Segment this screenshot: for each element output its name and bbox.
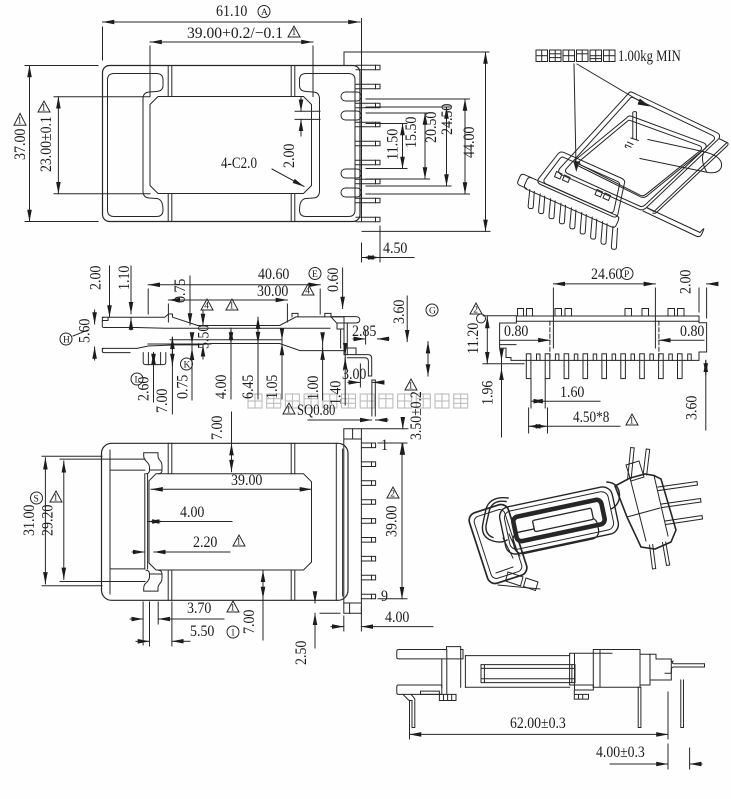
svg-text:2: 2 — [390, 489, 395, 499]
svg-text:1: 1 — [53, 493, 58, 503]
winding tube verticals — [144, 474, 146, 569]
iso2 header inner lines — [627, 476, 668, 542]
iso1 bottom mounting plate — [640, 140, 722, 173]
svg-text:1: 1 — [381, 437, 388, 454]
bottom view inner left line — [500, 344, 516, 346]
svg-text:24.60: 24.60 — [591, 266, 622, 283]
dim 4.00 tube — [148, 504, 232, 522]
svg-text:9: 9 — [381, 588, 388, 605]
circled H left — [60, 330, 88, 345]
dim 20.50 — [366, 107, 451, 186]
tube walls seen through top/bottom — [167, 443, 169, 474]
wire hook pill 4 — [341, 188, 362, 197]
side view right bracket step — [344, 348, 356, 355]
elevation left wire pin — [403, 694, 415, 727]
iso1 latch bumps — [555, 172, 571, 183]
dim 2.60 — [136, 353, 154, 402]
left flange plate lines — [110, 469, 145, 471]
svg-text:2.00: 2.00 — [88, 266, 105, 290]
svg-text:3.60: 3.60 — [684, 396, 701, 420]
iso2 winding tube tab below ring — [511, 516, 600, 555]
svg-text:1.10: 1.10 — [116, 266, 133, 290]
iso1 centre post — [631, 112, 639, 141]
top view right flange C-profile — [300, 74, 356, 217]
svg-text:1: 1 — [292, 28, 297, 38]
dim 44.00 — [362, 52, 490, 231]
svg-text:4.50*8: 4.50*8 — [573, 409, 609, 426]
dim 30.00 — [168, 283, 314, 322]
iso2 pin up 2 — [643, 449, 650, 475]
side view right L pin horizontal — [347, 355, 371, 376]
dim 61.10 A — [103, 3, 361, 60]
dim 39.00 +0.2/-0.1 B — [150, 25, 313, 97]
svg-text:G: G — [429, 306, 436, 316]
svg-text:4: 4 — [204, 301, 209, 311]
svg-text:4-C2.0: 4-C2.0 — [221, 155, 257, 172]
svg-text:15.50: 15.50 — [403, 117, 420, 148]
dim 6.45 side — [240, 317, 258, 399]
svg-text:1: 1 — [408, 381, 413, 391]
dim 62.00±0.3 — [410, 692, 669, 739]
side view foot — [143, 353, 166, 365]
svg-text:0.75: 0.75 — [172, 279, 189, 303]
dim 40.60 E — [148, 266, 321, 314]
dim 1.40 side — [328, 345, 346, 405]
svg-text:24.50: 24.50 — [439, 104, 456, 135]
iso2 pin up 1 — [628, 448, 635, 479]
svg-text:30.00: 30.00 — [257, 283, 288, 300]
tube wall lines lower — [167, 194, 169, 222]
dim 1.05 side — [264, 330, 282, 399]
dim 5.60 left — [77, 310, 95, 360]
side view right top cap pill — [331, 317, 360, 323]
elevation body top line — [465, 656, 569, 688]
side view flange top bumps — [292, 313, 331, 317]
dim 3.60 G right — [391, 296, 438, 376]
9 pins right front — [361, 443, 375, 599]
svg-text:1: 1 — [231, 628, 236, 638]
dim 1.60 — [531, 379, 600, 408]
svg-text:1.05: 1.05 — [264, 375, 281, 399]
front view left inner wall — [109, 450, 111, 594]
svg-text:1.60: 1.60 — [560, 384, 584, 401]
iso1 right edge lines — [647, 139, 729, 214]
iso1 bottom flange outer — [538, 152, 625, 217]
bottom view inner top line — [516, 320, 699, 322]
elevation right flange — [570, 653, 612, 690]
comb teeth between pins — [537, 354, 692, 360]
svg-text:4: 4 — [305, 286, 310, 296]
side view right flange body — [341, 317, 348, 355]
dim 11.50 — [366, 124, 407, 169]
top bump pair 3 — [625, 309, 649, 317]
iso2 top flange ring outer — [498, 485, 620, 556]
svg-text:L: L — [135, 375, 141, 385]
pin strip edge vertical — [361, 19, 363, 222]
elevation right horizontal pin — [665, 661, 705, 673]
leader line 2 — [577, 64, 642, 103]
iso2 pin right 3 — [658, 482, 698, 491]
front view outer body — [102, 443, 349, 600]
side view tube top outer — [198, 317, 331, 326]
svg-text:1: 1 — [629, 416, 634, 426]
wire hook pill 1 — [341, 92, 362, 101]
svg-text:29.20: 29.20 — [40, 505, 57, 536]
chinese annotation 頂部葉片強度 pseudo glyphs — [536, 50, 615, 62]
side view top taper lines — [137, 327, 330, 330]
side view top mounting plate — [102, 317, 137, 327]
wire hook pill 2 — [341, 111, 362, 120]
svg-text:P: P — [624, 270, 629, 280]
dim 2.00 right end — [678, 270, 716, 318]
dim 0.80 right — [659, 323, 705, 340]
strip step top horizontal / 44 ext — [344, 51, 489, 53]
elevation top left plate — [397, 647, 463, 659]
side view tube inner walls — [170, 339, 282, 341]
dim 31.00 S — [21, 456, 102, 586]
dim 4.50 pin length — [362, 226, 415, 262]
side view right flange edge — [331, 317, 344, 329]
iso2 header top tab — [626, 461, 644, 481]
svg-text:S: S — [34, 494, 39, 504]
iso1 top flange rim — [566, 97, 715, 206]
iso1 bottom flange rim — [544, 157, 620, 213]
svg-text:39.00+0.2/−0.1: 39.00+0.2/−0.1 — [187, 25, 283, 42]
svg-text:23.00±0.1: 23.00±0.1 — [38, 116, 55, 172]
dim 39.00 pins — [378, 443, 407, 599]
iso1 lower body edge — [643, 208, 704, 237]
dim 2.85 right — [352, 323, 389, 344]
elevation right wire pin A — [638, 687, 641, 727]
iso1 window rim — [580, 120, 702, 195]
svg-text:5.50: 5.50 — [190, 623, 214, 640]
svg-text:6.45: 6.45 — [240, 375, 257, 399]
svg-text:44.00: 44.00 — [461, 127, 478, 158]
svg-text:2: 2 — [473, 305, 478, 315]
dim 3.00 right — [342, 364, 384, 387]
svg-text:0.75: 0.75 — [175, 375, 192, 399]
annotation 4-C2.0 with leader — [221, 155, 304, 187]
dim 39.00 window — [151, 472, 312, 489]
watermark company text — [248, 394, 468, 408]
svg-text:1.00: 1.00 — [305, 376, 322, 400]
svg-text:39.00: 39.00 — [384, 506, 401, 537]
iso2 saddle clip left — [482, 498, 508, 542]
svg-text:7.00: 7.00 — [209, 416, 226, 440]
dim 7.00 bottom — [241, 570, 263, 640]
dim 5.50 centre — [196, 311, 213, 359]
top bump pair 1 — [518, 309, 533, 317]
svg-text:4.00: 4.00 — [385, 609, 409, 626]
dim 2.20 — [132, 534, 245, 552]
side view tube bottom outer — [148, 344, 344, 351]
iso1 pin strip — [524, 177, 618, 227]
dim 4.00 strip — [331, 607, 433, 631]
dim 4.50*8 — [529, 408, 638, 433]
9 bottom pins — [526, 354, 682, 379]
svg-text:7.00: 7.00 — [154, 389, 171, 413]
dim 37.00 left — [12, 66, 98, 222]
tube wall lines upper — [167, 66, 169, 97]
strip step top — [343, 52, 345, 66]
svg-text:31.00: 31.00 — [21, 505, 38, 536]
iso1 post detail — [625, 142, 633, 148]
svg-text:H: H — [63, 335, 70, 345]
dim 7.00 — [154, 337, 172, 414]
svg-text:5.50: 5.50 — [196, 325, 213, 349]
iso2 pin down 6 — [650, 545, 656, 569]
circled L — [131, 373, 143, 385]
svg-text:0.60: 0.60 — [325, 268, 342, 292]
iso1 pins row — [528, 190, 617, 250]
svg-text:40.60: 40.60 — [258, 266, 289, 283]
9 pins right side — [356, 65, 380, 222]
svg-text:37.00: 37.00 — [12, 129, 29, 160]
side view bottom mounting plate — [102, 346, 148, 353]
iso1 window outer — [575, 116, 706, 197]
hidden dashed lines — [549, 321, 551, 360]
svg-text:5.60: 5.60 — [77, 319, 94, 343]
dim 29.20 — [40, 459, 146, 581]
dim 0.60 right — [325, 268, 343, 309]
svg-text:4.50: 4.50 — [383, 240, 407, 257]
svg-text:2.85: 2.85 — [352, 323, 376, 340]
dim 1.00 side — [305, 334, 323, 400]
bottom view body outline — [500, 316, 707, 360]
iso2 left flange — [467, 502, 529, 585]
svg-text:K: K — [184, 360, 191, 370]
dim 2.00 left — [88, 266, 110, 317]
dim 4.00±0.3 — [596, 744, 702, 769]
top view outer body — [103, 66, 361, 222]
iso1 strip left tab — [518, 174, 532, 188]
svg-text:3.50±0.2: 3.50±0.2 — [408, 391, 425, 440]
svg-text:4.00: 4.00 — [180, 504, 204, 521]
SQ0.80 annotation — [283, 402, 388, 420]
dim 0.75 K — [175, 334, 193, 400]
elevation right wire pin B — [681, 680, 684, 728]
bottom wire hook pinch — [144, 570, 162, 591]
svg-text:3.70: 3.70 — [187, 600, 211, 617]
iso2 ring right end clip — [607, 482, 620, 509]
iso2 pin right 4 — [662, 499, 702, 508]
svg-text:11.50: 11.50 — [385, 129, 402, 160]
svg-text:A: A — [261, 8, 268, 18]
elevation left flange — [442, 650, 466, 695]
svg-text:4.00±0.3: 4.00±0.3 — [596, 744, 645, 761]
dim 24.60 P — [553, 266, 655, 348]
dim 23.00±0.1 left — [38, 97, 150, 194]
front centre window chamfered — [149, 474, 312, 570]
svg-text:3.60: 3.60 — [391, 300, 408, 324]
elevation tube — [481, 665, 575, 683]
dim 5.50 circled1 — [136, 602, 239, 646]
iso2 pin down 7 — [663, 542, 670, 565]
svg-text:1: 1 — [229, 301, 234, 311]
svg-text:SQ0.80: SQ0.80 — [297, 402, 335, 419]
iso2 feet — [506, 572, 539, 591]
wire hook pill 3 — [341, 169, 362, 178]
side view top plate body and tab — [102, 314, 197, 326]
dim 24.50 — [366, 99, 470, 194]
svg-text:20.50: 20.50 — [423, 112, 440, 143]
svg-text:1.96: 1.96 — [480, 381, 497, 405]
svg-text:61.10: 61.10 — [216, 3, 247, 20]
svg-text:1: 1 — [286, 405, 291, 415]
dim 3.60 bottom right — [684, 360, 706, 430]
dim 4.00 side — [213, 328, 231, 399]
elevation right header block — [593, 650, 650, 688]
iso1 top flange outer — [559, 92, 720, 210]
iso2 pin right 5 — [665, 516, 703, 525]
dim 11.20 F — [465, 303, 524, 364]
elevation right bottom teeth — [574, 685, 593, 699]
wire slot lines right flange — [295, 110, 320, 112]
pin header strip — [344, 429, 362, 614]
svg-text:7.00: 7.00 — [241, 610, 258, 634]
elevation left foot comb — [421, 691, 457, 700]
dim 3.50±0.2 — [362, 391, 425, 453]
dim 1.10 left — [116, 266, 133, 330]
svg-text:0.80: 0.80 — [680, 323, 704, 340]
top wire hook pinch — [144, 453, 162, 474]
right flange verticals — [335, 443, 337, 600]
dim 7.00 top — [209, 412, 232, 472]
dim 2.00 slot — [281, 97, 301, 168]
dim 15.50 — [366, 113, 430, 179]
svg-text:E: E — [312, 270, 318, 280]
svg-text:2.00: 2.00 — [678, 270, 695, 294]
dim 1.96 — [480, 351, 502, 437]
triangles in middle — [201, 299, 213, 310]
svg-text:1: 1 — [230, 603, 235, 613]
leader line 1 — [574, 64, 576, 166]
svg-text:62.00±0.3: 62.00±0.3 — [510, 715, 566, 732]
top bump pair 4 — [668, 309, 684, 317]
svg-text:2.00: 2.00 — [281, 144, 298, 168]
svg-text:1: 1 — [41, 103, 46, 113]
svg-text:4.00: 4.00 — [213, 375, 230, 399]
top view left flange C-profile — [108, 74, 164, 217]
elevation bottom left plate — [397, 685, 442, 694]
dim 0.80 left — [500, 323, 550, 340]
svg-text:2.20: 2.20 — [193, 534, 217, 551]
elevation right step block — [650, 654, 671, 680]
top bump pair 2 — [555, 309, 572, 317]
iso2 connector edges — [496, 534, 540, 589]
svg-text:1: 1 — [17, 117, 22, 127]
svg-text:11.20: 11.20 — [465, 323, 482, 354]
svg-text:1: 1 — [236, 537, 241, 547]
svg-text:2.50: 2.50 — [293, 641, 310, 665]
dim 3.70 — [130, 600, 239, 645]
top view centre winding window chamfered — [150, 97, 312, 194]
side view pin wire below — [371, 380, 373, 416]
iso2 right header block — [615, 474, 676, 549]
svg-text:1.00kg MIN: 1.00kg MIN — [618, 48, 681, 65]
dim 0.75 upper — [172, 276, 190, 325]
svg-text:0.80: 0.80 — [504, 323, 528, 340]
svg-text:39.00: 39.00 — [231, 472, 262, 489]
triangle near 3.60 — [405, 379, 417, 390]
dim 2.50 — [293, 592, 340, 665]
